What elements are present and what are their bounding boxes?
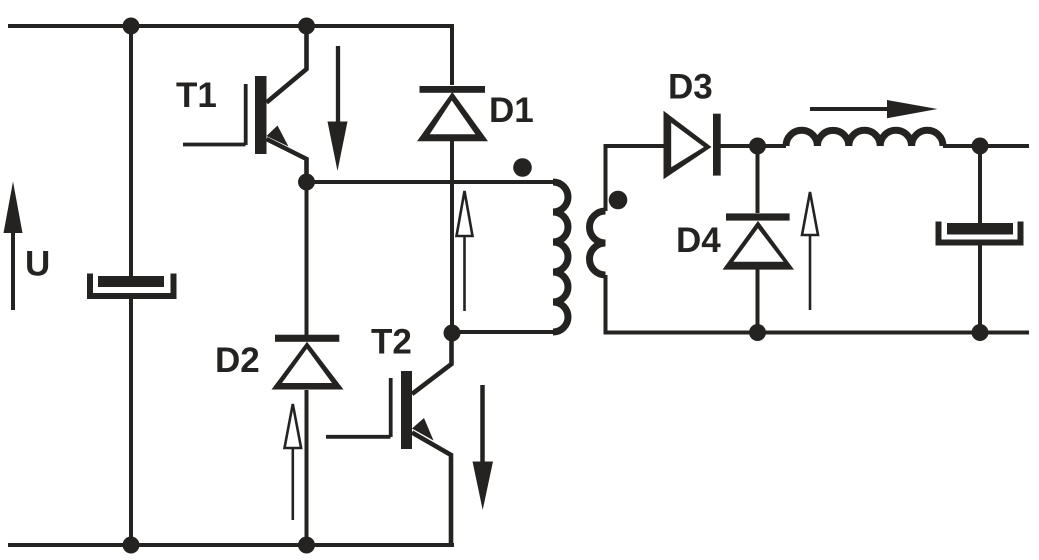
wire primary bottom [452,330,553,334]
transistor T2 (IGBT) [326,333,452,547]
arrow U (input voltage, filled up) [4,182,23,311]
diode D4 [723,146,795,333]
transformer secondary polarity dot [609,191,628,210]
arrow output current (filled right) [810,100,938,118]
transformer secondary winding [590,211,606,275]
svg-text:D1: D1 [489,91,534,130]
wire input capacitor branch upper [129,26,133,278]
transistor T1 (IGBT) [183,26,307,182]
node dot bottom rail / C-in [123,537,140,554]
node dot top rail / C-in [123,18,140,35]
capacitor C-out bracket [939,222,1021,243]
node dot D3 cathode / D4 / L [749,138,766,155]
wire input capacitor branch lower [129,296,133,545]
wire C-out lower [978,243,982,333]
node dot top rail / T1 [298,18,315,35]
diode D3 [664,111,787,179]
transformer primary winding [553,182,568,332]
capacitor C-in plate [98,276,164,287]
inductor L output choke [786,130,943,146]
arrow T2 current (filled down) [473,385,494,510]
arrow D4 current (open up) [802,192,818,310]
svg-text:D2: D2 [215,341,260,380]
arrow D2 current (open up) [285,404,302,520]
node dot C-out / bottom rail [972,324,989,341]
node dot bottom rail / D2 [298,537,315,554]
diode D1 [417,26,488,333]
wire inductor to output [943,144,1029,148]
diode D2 [272,182,344,545]
svg-text:T1: T1 [176,76,217,115]
svg-text:D4: D4 [676,221,721,260]
arrow T1 current (filled down) [328,46,348,171]
transformer primary polarity dot [513,158,532,177]
node dot primary bottom / T2 collector / D1 anode [444,325,461,342]
wire top rail [8,24,454,28]
wire secondary top [606,146,666,211]
svg-text:T2: T2 [371,322,412,361]
arrow primary current (open up) [457,191,473,311]
node dot D4 anode / bottom rail [749,324,766,341]
svg-text:D3: D3 [668,68,713,107]
svg-text:U: U [25,244,50,283]
wire mid rail node A [307,180,554,184]
wire C-out upper [978,146,982,225]
wire secondary bottom rail [606,275,1030,333]
capacitor C-in bracket [90,274,174,297]
node dot L / C-out [972,138,989,155]
capacitor C-out plate [947,223,1013,235]
wire bottom rail [8,543,454,547]
node dot T1 emitter [298,174,315,191]
